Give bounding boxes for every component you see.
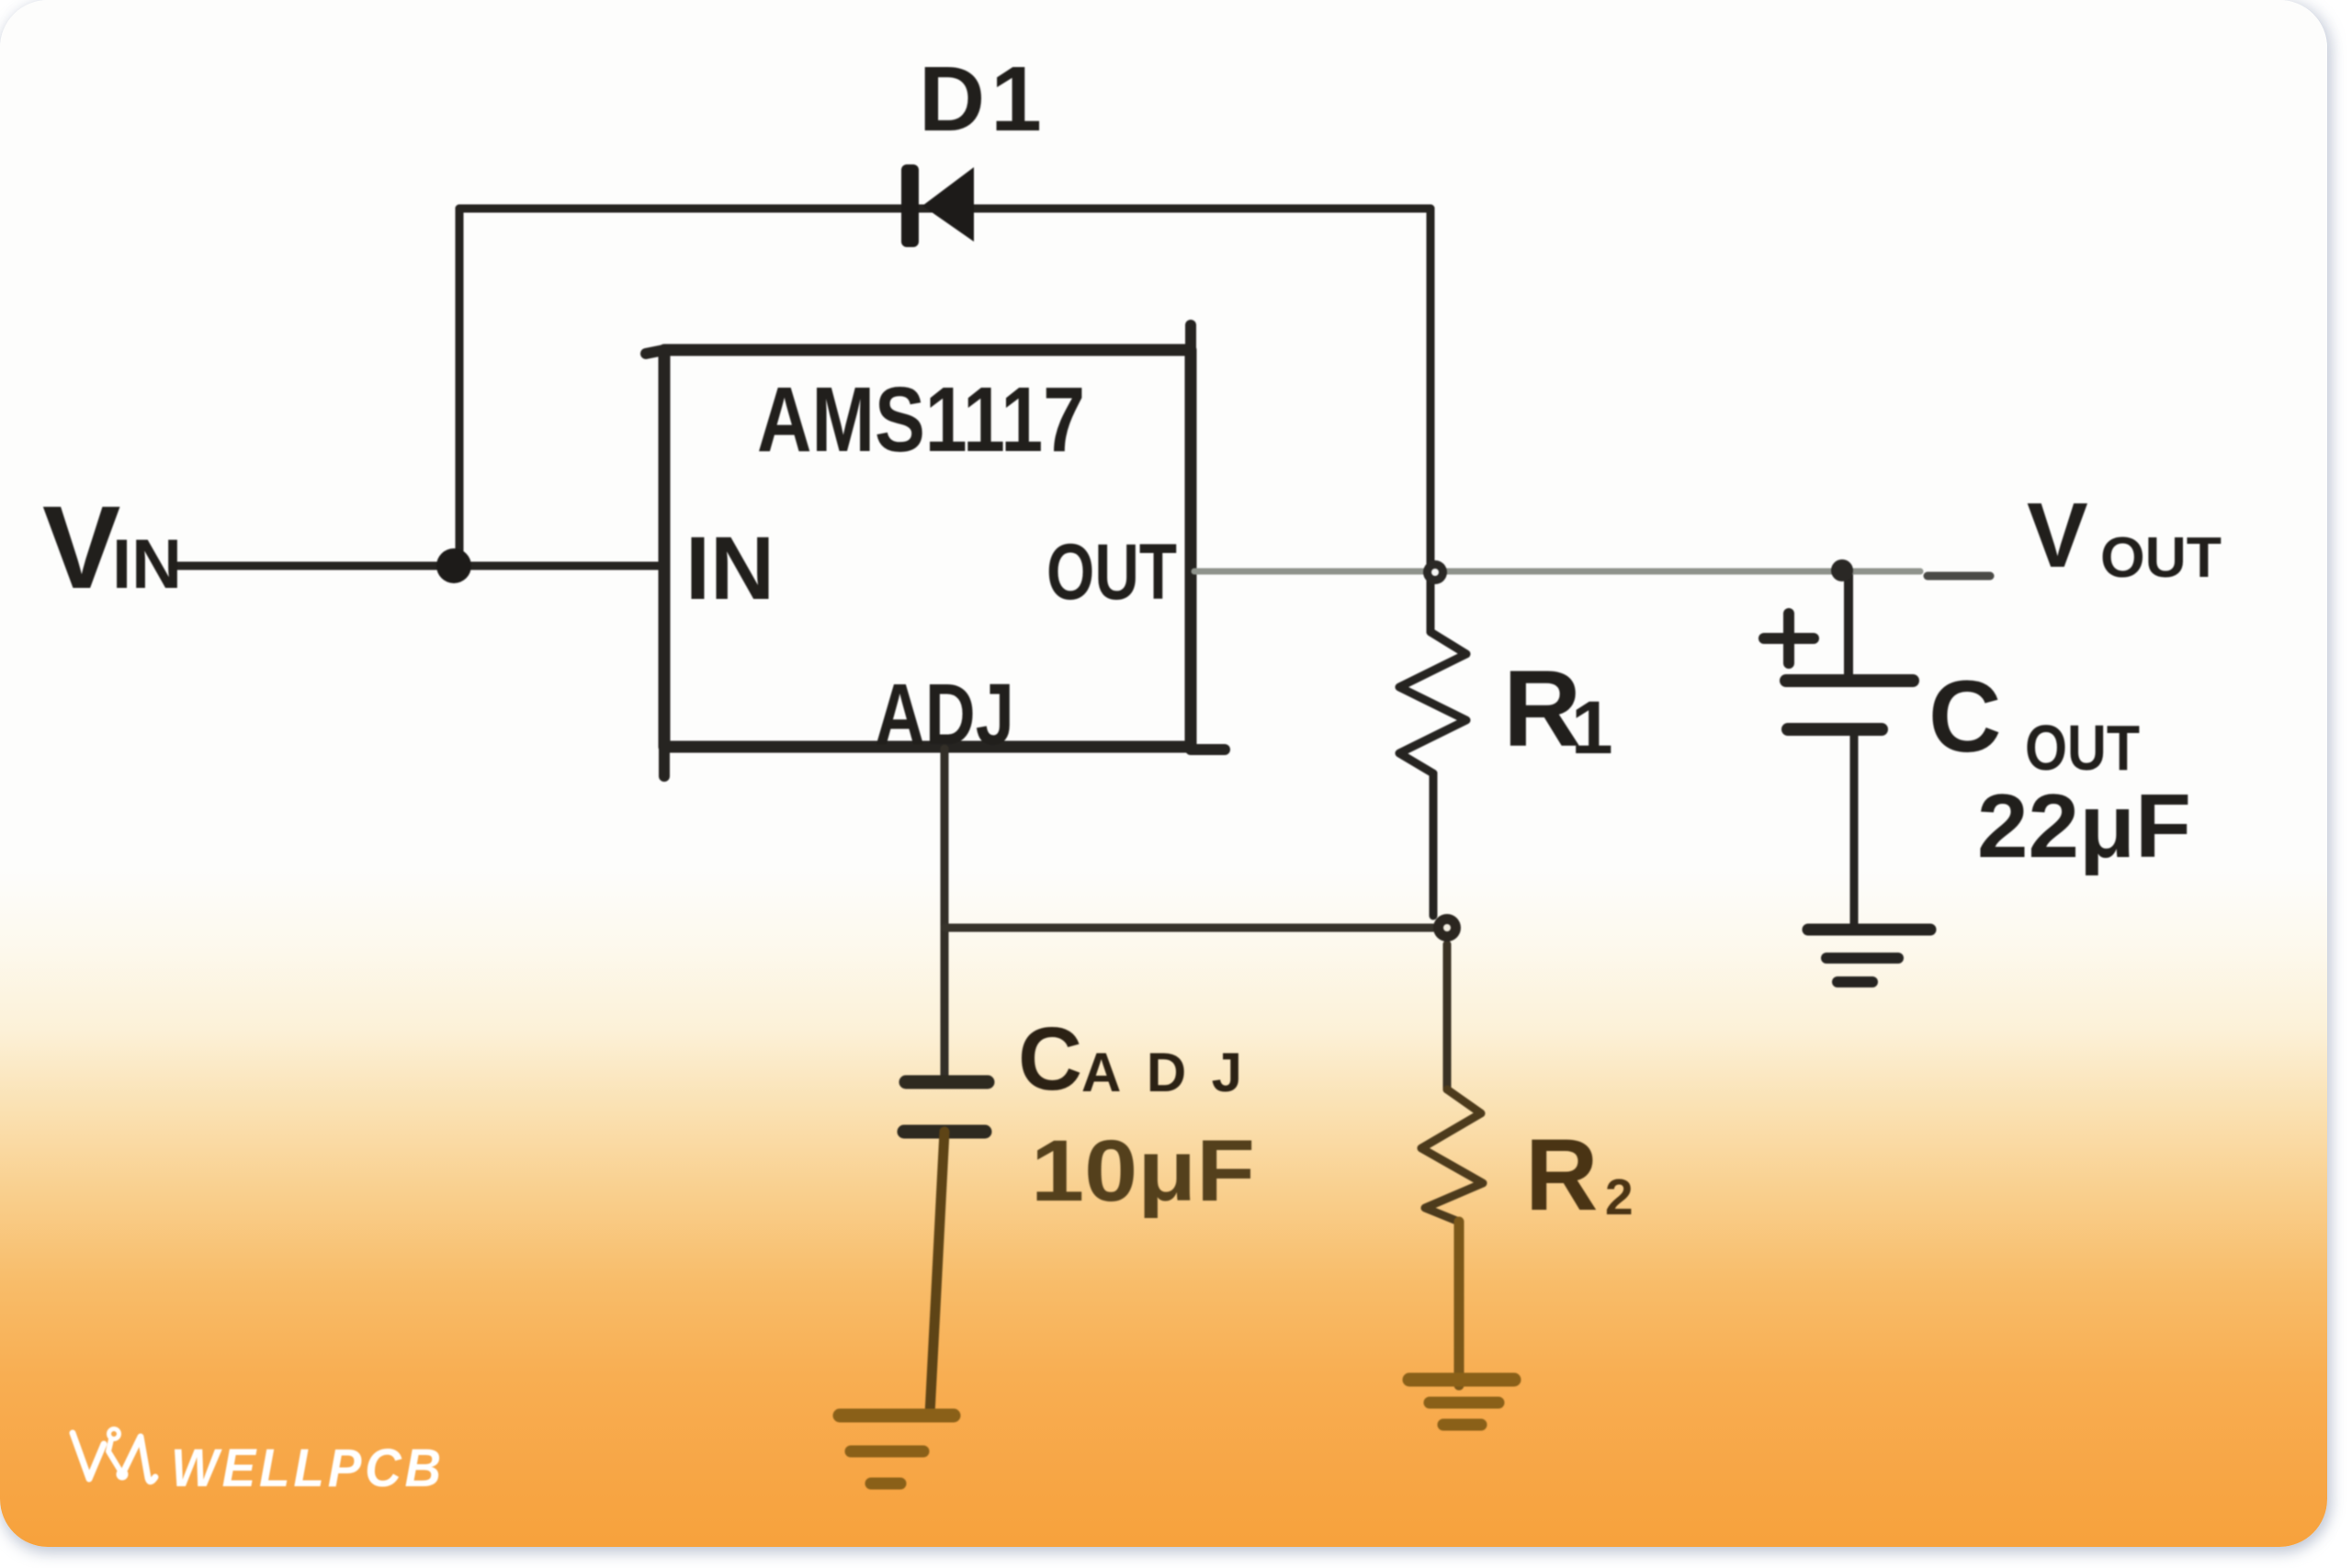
svg-text:22μF: 22μF xyxy=(1977,775,2191,876)
svg-text:AMS1117: AMS1117 xyxy=(757,368,1085,471)
svg-text:OUT: OUT xyxy=(1046,528,1177,616)
svg-text:2: 2 xyxy=(1605,1168,1634,1225)
svg-text:R: R xyxy=(1525,1119,1598,1232)
svg-text:1: 1 xyxy=(1571,686,1613,770)
svg-text:OUT: OUT xyxy=(2025,712,2140,784)
svg-text:WELLPCB: WELLPCB xyxy=(171,1438,445,1498)
svg-text:OUT: OUT xyxy=(2100,526,2222,590)
svg-text:ADJ: ADJ xyxy=(1081,1042,1242,1103)
svg-text:R: R xyxy=(1503,649,1581,770)
svg-text:C: C xyxy=(1928,660,2001,773)
svg-text:IN: IN xyxy=(685,518,775,618)
svg-text:C: C xyxy=(1018,1009,1082,1109)
svg-text:V: V xyxy=(2027,484,2088,587)
svg-text:ADJ: ADJ xyxy=(875,666,1014,763)
svg-text:IN: IN xyxy=(112,525,182,604)
svg-text:D1: D1 xyxy=(919,48,1047,151)
svg-text:V: V xyxy=(42,482,120,614)
svg-text:10μF: 10μF xyxy=(1031,1122,1255,1220)
